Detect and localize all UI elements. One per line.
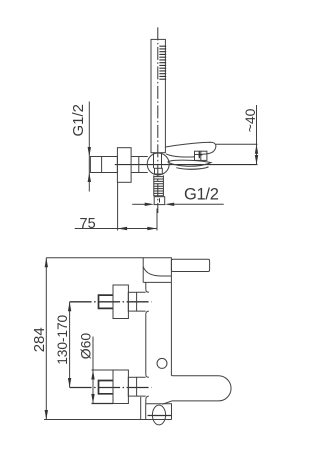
top inlet centerline [70, 301, 152, 303]
body column right edge [170, 282, 172, 375]
spout [171, 376, 231, 401]
extension below fitting [156, 209, 158, 231]
arrow up at pipe bottom [88, 173, 91, 183]
dimension 284: bottom extension / block bottom [44, 419, 172, 421]
arrow up tip at 144.2 [255, 144, 258, 154]
dimension G1/2 hose leader left segment [132, 203, 146, 205]
holder block [117, 148, 131, 183]
hose end fitting [154, 197, 165, 205]
nipple centerline [148, 415, 172, 417]
extension from block to 75 dim [117, 182, 119, 230]
dimension O60 line [92, 337, 94, 404]
wall supply pipe (left) [90, 157, 117, 173]
arrow up tip 301.8 [68, 302, 71, 312]
bottom flange [113, 370, 128, 404]
bottom ring [128, 377, 136, 396]
head detail box [195, 151, 207, 160]
handle tube through ball [154, 153, 162, 168]
ball joint [147, 153, 169, 175]
arrow down tip 402.8 [91, 394, 94, 404]
top horn [137, 292, 146, 311]
svg-text:G1/2: G1/2 [184, 186, 219, 204]
top horn fillets [146, 289, 149, 314]
mixer top cap [143, 258, 171, 283]
top ring [128, 292, 136, 311]
arrow left tip at fitting right [165, 203, 175, 206]
arrow down tip 386 [68, 378, 71, 388]
arrow down tip at 164.5 [255, 155, 258, 165]
svg-text:G1/2: G1/2 [70, 104, 87, 137]
diverter circle [157, 358, 167, 368]
svg-text:130-170: 130-170 [55, 314, 70, 364]
svg-text:75: 75 [80, 216, 96, 232]
hose nut inside ball [155, 168, 163, 174]
head lens crescent [168, 160, 211, 166]
shower head top wedge [166, 142, 216, 154]
top flange [113, 285, 128, 319]
arrow down tip 419.5 [45, 410, 48, 420]
arrow down at pipe top [88, 147, 91, 157]
bottom inlet centerline [70, 387, 152, 389]
dimension 284: top extension [46, 257, 143, 259]
shower head mid line [166, 154, 194, 157]
dimension 284: vertical line [45, 258, 47, 420]
pipe seam 2 [138, 157, 140, 173]
centerline horizontal through wall pipe [115, 164, 258, 166]
leader right segment [173, 203, 224, 205]
arrow right tip at fitting left [145, 203, 155, 206]
dimension 130-170 line [69, 302, 71, 388]
spout-body chamfer [162, 401, 172, 404]
dimension ~40: vertical line [256, 105, 258, 165]
bottom block [146, 404, 172, 420]
pipe seam [101, 157, 103, 173]
arrow left tip at 117.6 [118, 227, 128, 230]
svg-text:284: 284 [31, 327, 48, 352]
centerline vertical of hand shower [157, 27, 159, 213]
arrow up tip 369.3 [91, 370, 94, 380]
arrow right tip at 156.8 [147, 227, 157, 230]
dimension O60: extensions [92, 369, 114, 371]
dimension ~40: top extension from head tip [216, 143, 258, 145]
hose nipple ellipse [152, 405, 165, 425]
dimension G1/2 left: line [88, 102, 90, 192]
head lower rim [176, 167, 208, 169]
cartridge dome curve [143, 267, 171, 276]
svg-text:~40: ~40 [242, 108, 258, 132]
lever bar [171, 259, 209, 271]
handle grip ribs [159, 46, 166, 79]
bottom horn [137, 377, 146, 396]
pipe from block to ball [131, 157, 148, 173]
dimension 75 line [75, 228, 157, 230]
block left step [140, 397, 142, 420]
top inlet nut [99, 295, 114, 308]
arrow up tip 257.7 [45, 258, 48, 268]
bottom inlet nut [99, 381, 114, 394]
hose ribs below ball [154, 175, 164, 196]
hand shower handle body [151, 39, 165, 152]
bottom horn fillets [146, 375, 149, 400]
cap seam [143, 281, 171, 283]
svg-text:Ø60: Ø60 [77, 333, 93, 360]
body column left edge [145, 282, 147, 403]
